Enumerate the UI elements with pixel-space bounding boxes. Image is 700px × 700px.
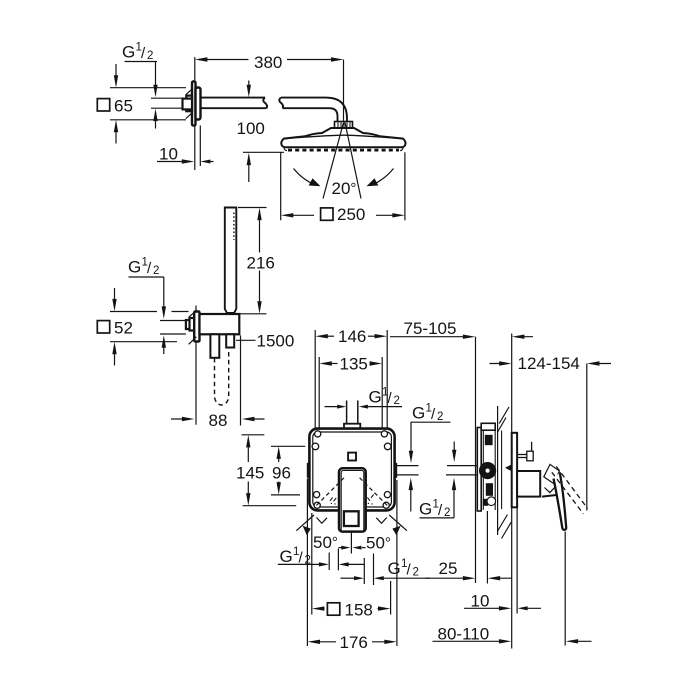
svg-text:65: 65 [114,97,133,116]
shower hose (dashed) [215,349,229,406]
inlet collar [344,424,360,429]
dimension square 250 (head size) [281,152,405,224]
label 50 degrees right [366,534,391,553]
tilt swing arrow right [367,169,394,187]
svg-text:2: 2 [147,50,153,62]
wall line (holder) [195,306,197,425]
svg-text:176: 176 [340,633,368,652]
swing arrow right 50 degrees [389,515,407,535]
svg-text:52: 52 [114,319,133,338]
valve lever (front) [339,468,366,531]
finished wall line [511,334,513,649]
tilt swing arrow left [294,169,321,187]
right outlet port tab [395,463,398,478]
outlet port circle (side) [487,497,496,506]
shower arm thread nipple G1/2 [183,96,193,112]
dimension 380 (arm length) [195,53,344,122]
svg-text:75-105: 75-105 [404,319,457,338]
wall section hatched strip [498,406,512,539]
rough wall line [475,337,477,583]
oblique tick marks at flange corners [186,88,193,118]
dimension 25 (wall tolerance) [425,511,512,584]
svg-text:2: 2 [437,411,443,423]
lever hub (side) [542,464,561,496]
holder thread nipple [186,318,195,331]
dimension 216 (hand shower length) [238,208,275,314]
label 50 degrees left [313,533,338,552]
svg-text:2: 2 [413,567,419,579]
bottom right outlet extension lines [364,554,373,586]
dimension 145 (mounting height) [236,435,296,506]
valve body housing (side) [477,428,481,512]
center marker square [348,453,356,461]
svg-text:100: 100 [237,119,265,138]
svg-text:124-154: 124-154 [518,354,580,373]
lever square opening [344,511,359,526]
dimension G1/2 (side supply, bottom) [419,478,456,519]
svg-text:88: 88 [209,411,228,430]
supply pipe stub in wall (shower arm) [151,98,183,108]
head shower body [281,128,405,147]
valve inlet pipe [347,401,358,424]
dimension G1/2 (bottom left outlet) [278,546,365,567]
shower arm escutcheon flange [192,82,201,126]
small index marks on plate [330,495,374,504]
head tilt lines 20 degrees [323,123,361,199]
svg-text:2: 2 [394,395,400,407]
dimension G1/2 (shower arm connection) [122,42,158,129]
svg-text:G: G [280,547,293,566]
svg-text:50°: 50° [313,533,338,552]
stop screw detail [517,442,533,461]
hose connector [210,334,219,358]
valve stem housing (side) [517,471,540,497]
chevron marks below plate [317,518,387,524]
escutcheon plate (side) [512,433,517,508]
swing arrow left 50 degrees [296,515,314,535]
dimension square 52 (holder escutcheon) [97,288,188,366]
svg-text:2: 2 [153,265,159,277]
svg-text:216: 216 [247,254,275,273]
svg-text:2: 2 [444,507,450,519]
svg-text:250: 250 [337,205,365,224]
lever alternate position (dashed) [552,467,588,514]
head shower spray face [288,149,399,152]
valve escutcheon plate (front) [309,429,394,511]
dimension square 158 [312,513,391,620]
label 20 degrees [332,179,357,198]
holder escutcheon flange [194,312,199,342]
svg-text:10: 10 [471,592,490,611]
dimension 100 (arm to head face) [237,81,285,183]
svg-text:G: G [122,43,135,62]
svg-text:25: 25 [439,559,458,578]
svg-text:135: 135 [340,355,368,374]
dimension 176 [307,479,397,653]
outlet nipple [226,334,234,347]
lever (side, solid) [554,472,567,530]
shower arm tube (with break) [201,98,348,122]
body internals [479,435,496,506]
svg-text:1500: 1500 [257,332,295,351]
dimension G1/2 (bottom right outlet) [341,558,431,580]
svg-text:G: G [419,500,432,519]
svg-text:50°: 50° [366,534,391,553]
svg-text:146: 146 [338,327,366,346]
svg-text:20°: 20° [332,179,357,198]
head shower ball-joint collar [335,122,353,129]
dimension G1/2 (side supply, top) [409,403,457,512]
svg-text:80-110: 80-110 [438,625,490,644]
dimension G1/2 (valve inlet) [325,387,403,409]
svg-text:G: G [388,559,401,578]
dimension 75-105 [390,319,533,339]
dimension 96 [271,446,305,495]
finished wall marker arrow [505,465,511,471]
svg-text:10: 10 [159,145,178,164]
svg-text:158: 158 [345,601,373,620]
mounting screws [312,431,391,509]
svg-text:380: 380 [254,53,282,72]
svg-text:G: G [128,258,141,277]
svg-text:G: G [369,388,382,407]
dimension 88 (holder offset) [171,336,265,431]
bottom left outlet extension lines [329,549,338,571]
dimension square 65 (escutcheon size) [97,64,186,144]
center line below lever [350,532,352,554]
dimension G1/2 (holder connection) [128,257,166,355]
supply pipe stub (holder) [160,321,186,335]
svg-text:96: 96 [272,464,291,483]
swing range dashed lines [316,478,388,506]
dimension 80-110 [433,532,592,646]
dimension 1500 (hose length) [236,332,294,351]
center reference arrows [339,546,366,550]
dimension 10 (escutcheon thickness, side) [464,507,541,613]
dimension 10 (flange thickness) [157,126,214,167]
left outlet port tab [307,463,310,478]
dimension 135 [319,355,382,431]
svg-text:G: G [412,404,425,423]
oblique ticks (holder flange) [189,310,197,344]
wall line (shower arm) [194,57,196,170]
dimension 146 (housing width) [315,327,387,430]
supply pipes (side view) [397,466,477,475]
dimension 124-154 [490,354,612,511]
holder body [200,314,240,334]
hand shower stick [225,208,237,313]
svg-text:145: 145 [236,464,264,483]
